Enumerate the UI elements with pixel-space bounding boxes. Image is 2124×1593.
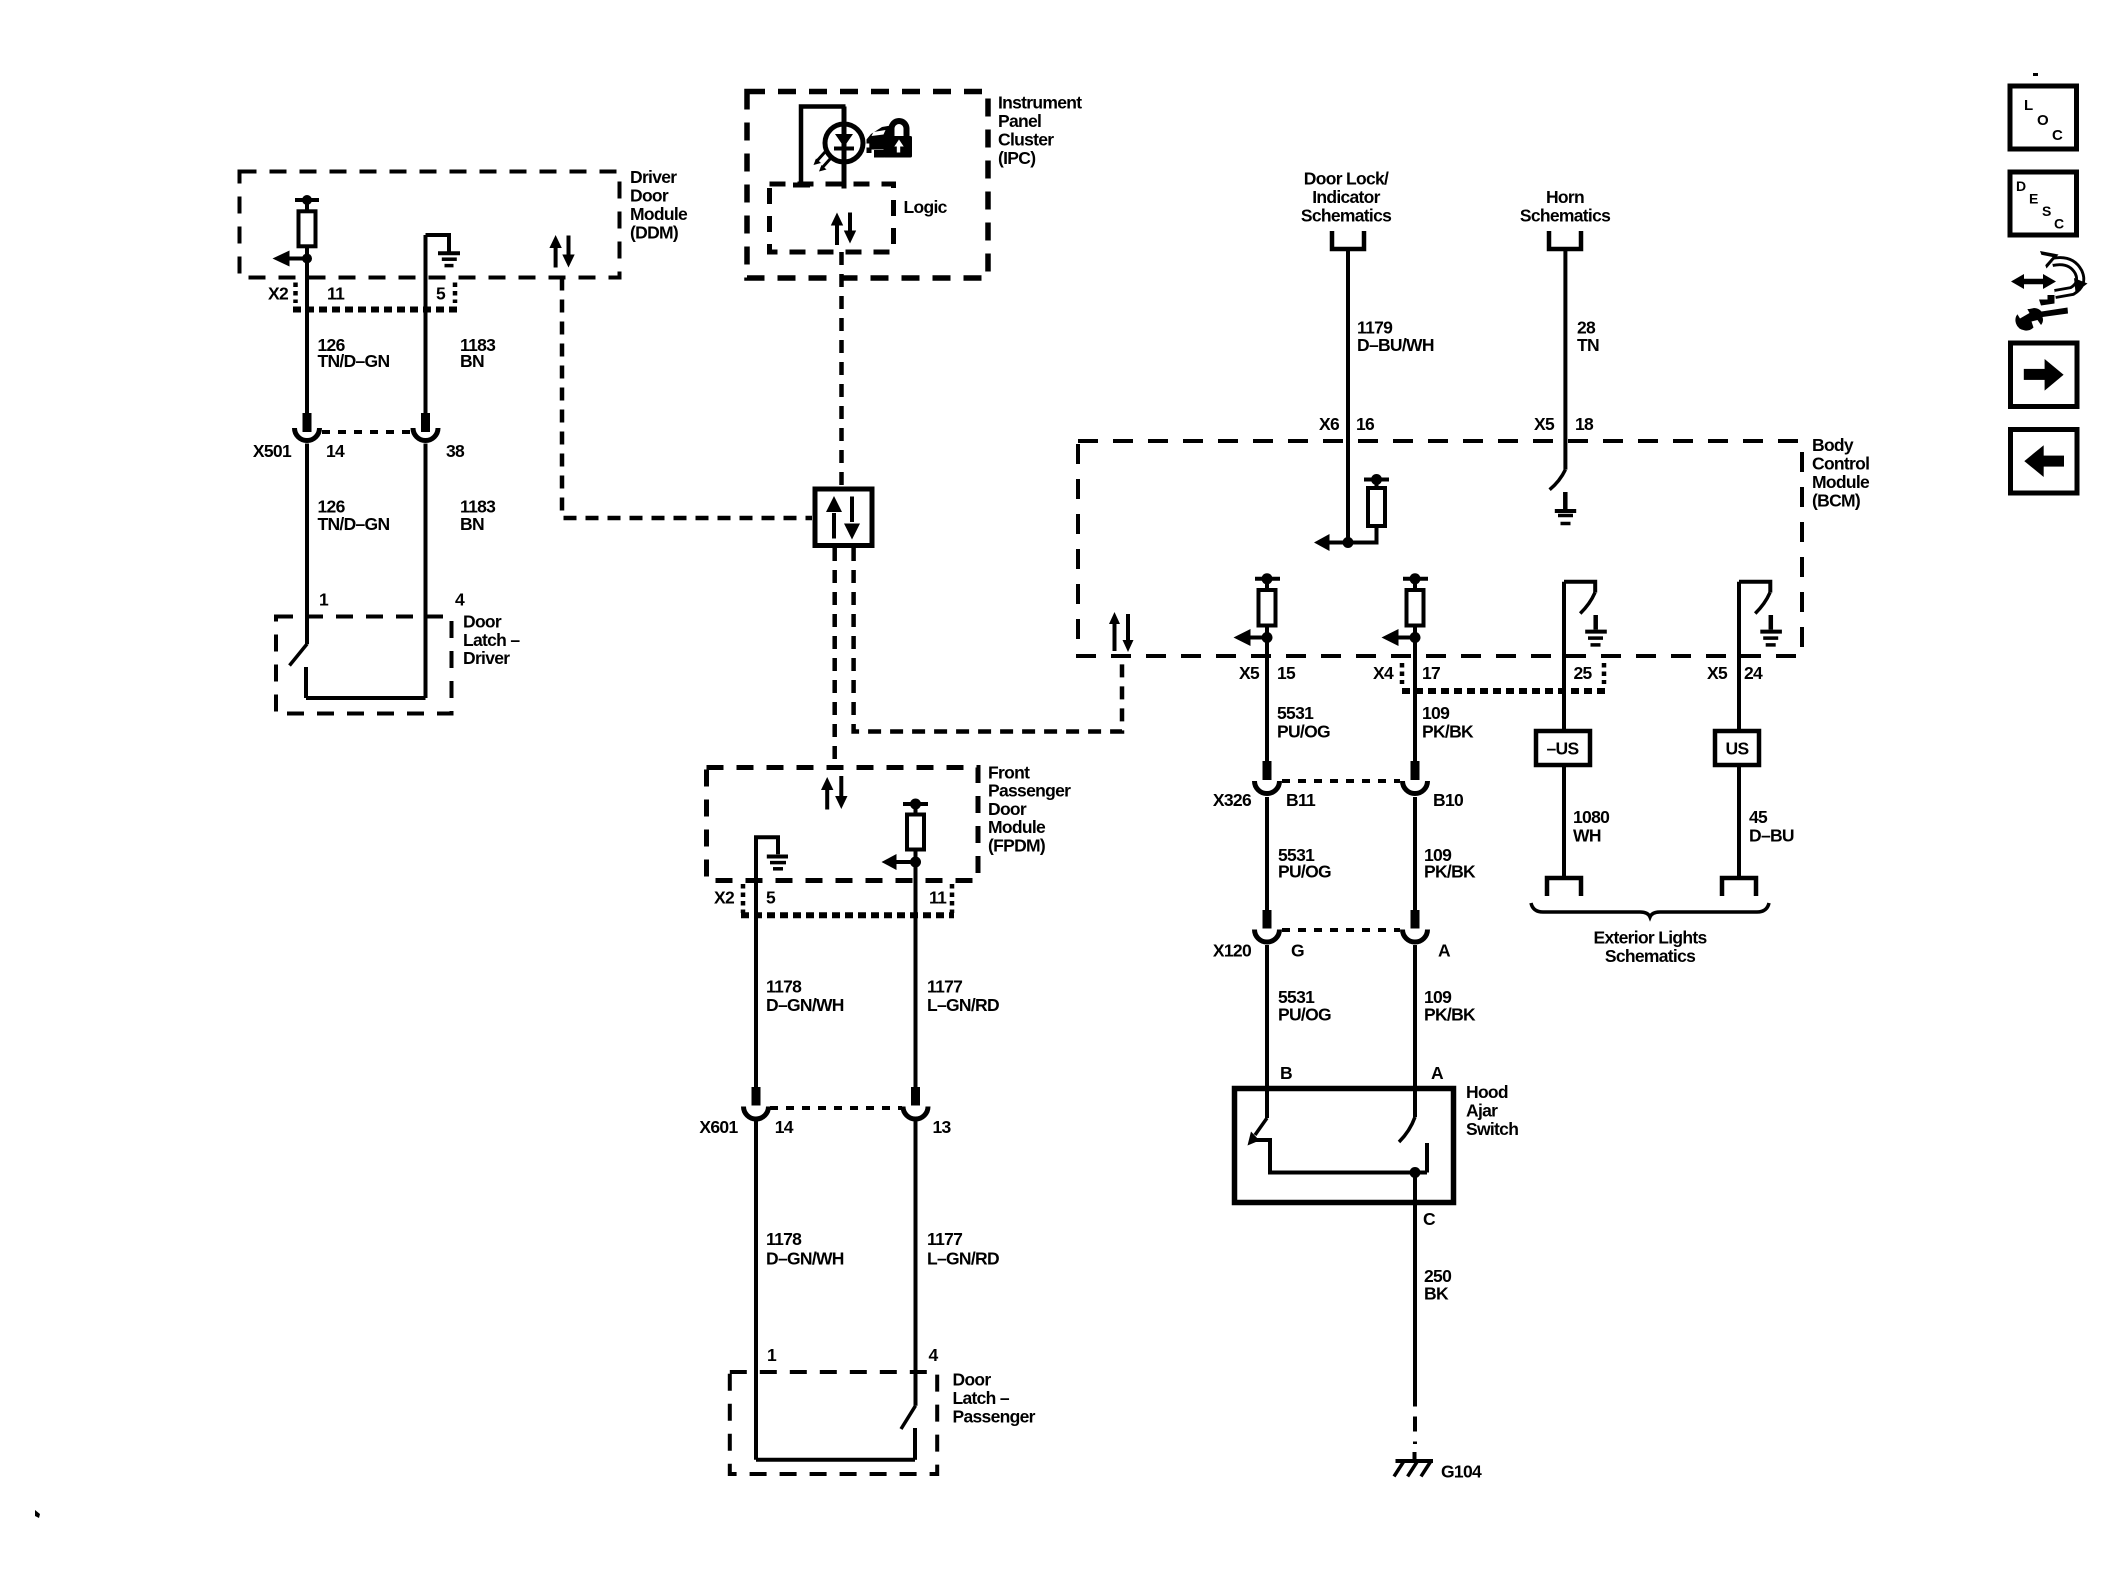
- svg-text:D–GN/WH: D–GN/WH: [766, 1249, 844, 1269]
- svg-text:(FPDM): (FPDM): [988, 836, 1045, 856]
- svg-text:PU/OG: PU/OG: [1278, 1005, 1331, 1025]
- svg-text:Door: Door: [988, 799, 1027, 819]
- IPC box: [747, 92, 988, 279]
- wire label 5531 PU/OG (lower): [1278, 987, 1331, 1024]
- off-page connector (Horn): [1549, 231, 1581, 249]
- Door Latch Driver box: [276, 617, 452, 714]
- svg-text:L–GN/RD: L–GN/RD: [927, 995, 999, 1015]
- wire 5531 PU/OG (X120 to hood switch B): [1265, 945, 1269, 1118]
- svg-text:4: 4: [455, 590, 465, 610]
- wire label 126 TN/D-GN (upper): [318, 335, 390, 371]
- resistor in FPDM: [903, 799, 928, 863]
- wire: FPDM pin 5 (ground) to X601: [754, 882, 758, 1088]
- dashed serial wire: comm node down to FPDM: [832, 548, 837, 766]
- svg-text:Module: Module: [988, 817, 1046, 837]
- svg-text:(BCM): (BCM): [1812, 491, 1860, 511]
- wire label 1177 L-GN/RD (lower): [927, 1229, 999, 1269]
- serial data arrows in Logic box: [831, 213, 856, 246]
- svg-text:L: L: [2024, 97, 2033, 114]
- LED emission arrows: [814, 152, 831, 172]
- svg-text:S: S: [2042, 203, 2051, 219]
- wire label 250 BK: [1424, 1266, 1452, 1304]
- svg-text:Door: Door: [953, 1370, 992, 1390]
- svg-text:X601: X601: [699, 1117, 738, 1137]
- svg-text:13: 13: [933, 1117, 952, 1137]
- wire label 1183 BN (lower): [460, 497, 496, 534]
- svg-text:WH: WH: [1573, 826, 1601, 846]
- Door Latch Passenger label: [953, 1370, 1036, 1427]
- connector part divider X4 (dotted): [1400, 663, 1405, 684]
- svg-text:B11: B11: [1286, 790, 1316, 810]
- dashed serial wire: DDM to comm node: [562, 278, 812, 519]
- wire label 1177 L-GN/RD (upper): [927, 977, 999, 1015]
- Door Latch Driver label: [463, 612, 520, 669]
- svg-text:Indicator: Indicator: [1312, 187, 1380, 207]
- svg-text:L–GN/RD: L–GN/RD: [927, 1249, 999, 1269]
- wire label 109 PK/BK (middle): [1424, 845, 1476, 882]
- wire label 5531 PU/OG (middle): [1278, 845, 1331, 882]
- svg-text:E: E: [2029, 191, 2038, 207]
- wire label 1179 D-BU/WH: [1357, 317, 1434, 355]
- wire pin 25 to -US: [1562, 582, 1566, 731]
- svg-text:G: G: [1291, 941, 1304, 961]
- resistor R-DDM (lock actuator driver): [295, 195, 319, 259]
- svg-text:1178: 1178: [766, 977, 802, 997]
- Logic box: [770, 184, 894, 252]
- two-way serial data wrench icon: [2011, 251, 2088, 331]
- svg-text:C: C: [2054, 216, 2064, 232]
- svg-text:PU/OG: PU/OG: [1278, 862, 1331, 882]
- ground G104: [1394, 1461, 1482, 1482]
- wire 28 TN: [1563, 249, 1567, 470]
- connector X2 (DDM): [268, 283, 457, 310]
- connector X601: [699, 1087, 951, 1137]
- svg-text:18: 18: [1575, 414, 1594, 434]
- svg-text:BN: BN: [460, 514, 484, 534]
- svg-text:D–BU: D–BU: [1749, 826, 1794, 846]
- resistor in BCM (door lock input): [1348, 474, 1389, 543]
- brace (exterior lights): [1531, 903, 1769, 917]
- switch to ground in BCM (pin X5-24): [1739, 582, 1782, 645]
- svg-text:Panel: Panel: [998, 111, 1041, 131]
- wire 1183 BN (DDM pin 5 ground to X501): [424, 235, 428, 413]
- ground in DDM: [426, 235, 461, 266]
- svg-text:5531: 5531: [1277, 703, 1314, 723]
- svg-text:TN: TN: [1577, 335, 1599, 355]
- dashed serial wire: comm node to BCM: [854, 548, 1122, 732]
- connector part divider pin 25 (dotted): [1602, 663, 1607, 684]
- wire 250 BK (hood switch C to G104): [1413, 1173, 1418, 1462]
- FPDM box: [707, 768, 979, 881]
- connector X501: [253, 413, 465, 461]
- svg-text:Horn: Horn: [1546, 187, 1584, 207]
- DESC icon box: [2010, 172, 2077, 235]
- switch in driver door latch: [290, 644, 426, 698]
- svg-text:PK/BK: PK/BK: [1424, 862, 1476, 882]
- ground in FPDM: [756, 837, 788, 882]
- svg-text:X5: X5: [1239, 663, 1260, 683]
- svg-text:Driver: Driver: [463, 648, 510, 668]
- svg-text:X5: X5: [1534, 414, 1555, 434]
- switch to ground in BCM (horn pin 18): [1550, 470, 1577, 524]
- svg-text:X2: X2: [268, 284, 289, 304]
- svg-text:PK/BK: PK/BK: [1424, 1005, 1476, 1025]
- wire 5531 PU/OG (pin 15 to X326): [1265, 658, 1269, 763]
- svg-text:A: A: [1438, 941, 1451, 961]
- pin row labels below BCM: [1239, 663, 1763, 683]
- Hood Ajar Switch box: [1235, 1089, 1454, 1203]
- svg-text:C: C: [2052, 127, 2063, 144]
- connector dotted line pins 17-25: [1402, 688, 1606, 694]
- IPC label: [998, 93, 1082, 169]
- wire 1178 (X601 to latch pin 1): [754, 1118, 758, 1460]
- svg-text:X4: X4: [1373, 663, 1394, 683]
- Door Latch Passenger box: [730, 1372, 937, 1474]
- pin X6 16 labels: [1319, 414, 1375, 434]
- wire label 109 PK/BK (lower): [1424, 987, 1476, 1024]
- directional arrow at door lock input junction: [1314, 534, 1354, 551]
- svg-text:Passenger: Passenger: [953, 1406, 1036, 1426]
- svg-text:Door Lock/: Door Lock/: [1304, 169, 1389, 189]
- directional arrow in DDM: [273, 251, 313, 267]
- svg-text:Latch –: Latch –: [953, 1388, 1010, 1408]
- dashed serial wire: Logic/IPC down to comm node: [839, 252, 844, 487]
- svg-text:Schematics: Schematics: [1301, 206, 1392, 226]
- wire 5531 PU/OG (X326 to X120): [1265, 797, 1269, 911]
- svg-text:Schematics: Schematics: [1520, 206, 1611, 226]
- Horn Schematics header: [1520, 187, 1611, 226]
- connector X2 (FPDM): [714, 884, 954, 915]
- svg-text:BK: BK: [1424, 1284, 1449, 1304]
- svg-text:24: 24: [1744, 663, 1763, 683]
- svg-text:G104: G104: [1441, 1462, 1482, 1482]
- svg-text:Module: Module: [1812, 472, 1870, 492]
- svg-text:Cluster: Cluster: [998, 130, 1054, 150]
- Exterior Lights Schematics label: [1594, 928, 1708, 967]
- wire pin 24 to US: [1737, 582, 1741, 731]
- resistor in BCM (hood ajar sense, X5-15): [1255, 573, 1280, 658]
- car lock telltale icon: [867, 118, 913, 158]
- svg-text:11: 11: [327, 284, 345, 304]
- svg-text:(DDM): (DDM): [630, 223, 678, 243]
- svg-text:C: C: [1423, 1209, 1436, 1229]
- wire 1177 (X601 to latch pin 4): [914, 1118, 918, 1406]
- wire label 126 TN/D-GN (lower): [318, 497, 390, 534]
- svg-text:45: 45: [1749, 807, 1768, 827]
- wire 126 TN/D-GN (DDM pin 11 to X501): [305, 259, 309, 414]
- -US box: [1536, 731, 1590, 765]
- svg-text:Body: Body: [1812, 435, 1854, 455]
- wire label 1183 BN (upper): [460, 335, 496, 371]
- svg-text:5: 5: [766, 888, 776, 908]
- svg-text:Hood: Hood: [1466, 1082, 1508, 1102]
- off-page connector (45 D-BU to exterior lights): [1722, 878, 1756, 896]
- serial data arrows in DDM: [549, 235, 574, 268]
- svg-text:17: 17: [1422, 663, 1440, 683]
- speck (bottom left): [35, 1510, 40, 1518]
- hood switch pole A: [1399, 1117, 1427, 1178]
- svg-text:B: B: [1280, 1063, 1292, 1083]
- connector X120: [1213, 910, 1451, 961]
- svg-text:Front: Front: [988, 762, 1030, 782]
- switch in passenger door latch: [756, 1406, 916, 1460]
- svg-text:TN/D–GN: TN/D–GN: [318, 514, 390, 534]
- connector X326: [1213, 761, 1464, 810]
- BCM box: [1078, 441, 1802, 656]
- svg-text:US: US: [1726, 739, 1749, 759]
- svg-text:PK/BK: PK/BK: [1422, 722, 1474, 742]
- svg-text:A: A: [1431, 1063, 1444, 1083]
- wire 45 D-BU: [1737, 765, 1741, 877]
- svg-text:1: 1: [767, 1345, 777, 1365]
- BCM label: [1812, 435, 1870, 511]
- LOC icon box: [2010, 86, 2077, 149]
- wire 109 PK/BK (pin 17 to X326): [1413, 658, 1417, 763]
- resistor in BCM (hood ajar supply, X4-17): [1403, 573, 1428, 658]
- svg-text:16: 16: [1356, 414, 1375, 434]
- svg-text:1080: 1080: [1573, 807, 1610, 827]
- svg-text:–US: –US: [1547, 739, 1579, 759]
- speck (top right): [2033, 73, 2038, 76]
- svg-text:14: 14: [775, 1117, 794, 1137]
- wire 109 PK/BK (X120 to hood switch A): [1413, 945, 1417, 1117]
- svg-text:15: 15: [1277, 663, 1296, 683]
- wire 1179 D-BU/WH: [1346, 249, 1350, 543]
- svg-text:X2: X2: [714, 888, 735, 908]
- forward arrow icon box: [2011, 343, 2078, 407]
- wire 109 PK/BK (X326 to X120): [1413, 797, 1417, 911]
- serial data arrows in BCM: [1109, 612, 1134, 652]
- wire label 1178 D-GN/WH (lower): [766, 1229, 844, 1269]
- svg-text:Passenger: Passenger: [988, 781, 1071, 801]
- svg-text:Module: Module: [630, 204, 688, 224]
- US box: [1715, 731, 1759, 765]
- svg-text:PU/OG: PU/OG: [1277, 722, 1330, 742]
- svg-text:X120: X120: [1213, 941, 1252, 961]
- DDM module box: [240, 172, 620, 278]
- hood switch pole B (with arrow blade): [1248, 1118, 1428, 1173]
- svg-text:Latch –: Latch –: [463, 630, 520, 650]
- svg-text:1: 1: [319, 590, 329, 610]
- wire label 5531 PU/OG (upper): [1277, 703, 1330, 742]
- svg-text:4: 4: [929, 1345, 939, 1365]
- DDM label: [630, 167, 688, 243]
- svg-text:Ajar: Ajar: [1466, 1101, 1498, 1121]
- svg-text:Door: Door: [630, 186, 669, 206]
- directional arrow at X4-17 junction: [1382, 629, 1421, 646]
- off-page connector (Door Lock): [1332, 231, 1364, 249]
- svg-text:D: D: [2016, 178, 2026, 194]
- svg-text:Logic: Logic: [904, 197, 948, 217]
- svg-text:25: 25: [1574, 663, 1593, 683]
- pin X5 18 labels: [1534, 414, 1594, 434]
- svg-text:B10: B10: [1433, 790, 1464, 810]
- svg-text:1178: 1178: [766, 1229, 802, 1249]
- FPDM label: [988, 762, 1071, 855]
- svg-text:1177: 1177: [927, 977, 962, 997]
- Hood Ajar Switch label: [1466, 1082, 1518, 1139]
- off-page connector (1080 WH to exterior lights): [1547, 878, 1581, 896]
- svg-text:14: 14: [326, 441, 345, 461]
- svg-text:Instrument: Instrument: [998, 93, 1082, 113]
- svg-text:Driver: Driver: [630, 167, 677, 187]
- svg-text:X6: X6: [1319, 414, 1340, 434]
- svg-text:38: 38: [446, 441, 465, 461]
- svg-text:X5: X5: [1707, 663, 1728, 683]
- svg-text:BN: BN: [460, 351, 484, 371]
- wire label 1178 D-GN/WH (upper): [766, 977, 844, 1015]
- svg-text:11: 11: [929, 888, 947, 908]
- serial data arrows in FPDM: [821, 776, 848, 810]
- svg-text:Switch: Switch: [1466, 1119, 1518, 1139]
- svg-text:Door: Door: [463, 612, 502, 632]
- wire 1080 WH: [1562, 765, 1566, 877]
- svg-text:Schematics: Schematics: [1605, 946, 1696, 966]
- svg-text:Exterior Lights: Exterior Lights: [1594, 928, 1708, 948]
- svg-text:O: O: [2037, 112, 2049, 129]
- switch to ground in BCM (pin 25): [1564, 582, 1607, 645]
- wire label 45 D-BU: [1749, 807, 1794, 846]
- Door Lock/Indicator Schematics header: [1301, 169, 1392, 226]
- wire: FPDM pin 11 to X601: [914, 862, 918, 1088]
- back arrow icon box: [2011, 430, 2078, 494]
- svg-text:TN/D–GN: TN/D–GN: [318, 351, 390, 371]
- svg-text:(IPC): (IPC): [998, 148, 1035, 168]
- wire label 109 PK/BK (upper): [1422, 703, 1474, 742]
- directional arrow in FPDM: [882, 854, 922, 870]
- svg-text:109: 109: [1422, 703, 1450, 723]
- wire 126 TN/D-GN (X501 to latch pin 1): [305, 444, 309, 645]
- svg-text:1177: 1177: [927, 1229, 962, 1249]
- serial data comm box: [815, 489, 872, 546]
- wire label 28 TN: [1577, 317, 1599, 355]
- svg-text:X326: X326: [1213, 790, 1252, 810]
- svg-text:Control: Control: [1812, 454, 1869, 474]
- svg-text:X501: X501: [253, 441, 292, 461]
- wire 1183 BN (X501 to latch pin 4): [424, 444, 428, 699]
- svg-text:D–GN/WH: D–GN/WH: [766, 995, 844, 1015]
- LED indicator in IPC: [793, 107, 863, 189]
- svg-text:5: 5: [436, 284, 446, 304]
- directional arrow at X5-15 junction: [1234, 629, 1273, 646]
- svg-text:D–BU/WH: D–BU/WH: [1357, 335, 1434, 355]
- wire label 1080 WH: [1573, 807, 1610, 846]
